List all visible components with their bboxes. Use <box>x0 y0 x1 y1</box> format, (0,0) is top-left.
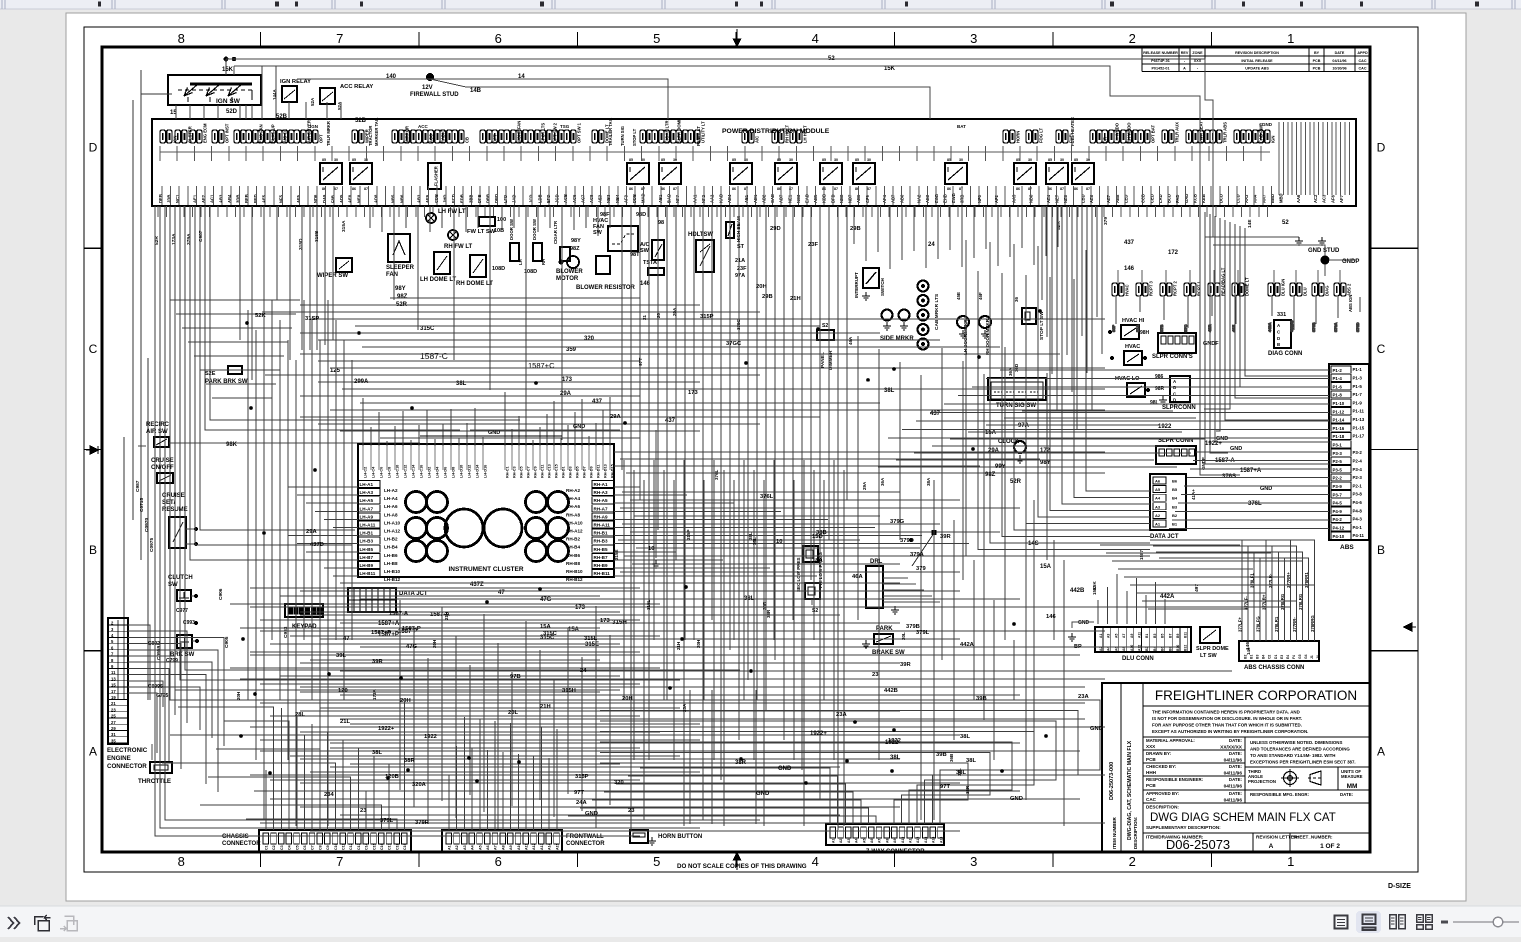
svg-text:P3-5: P3-5 <box>1333 467 1343 472</box>
svg-text:C: C <box>89 342 98 356</box>
svg-text:CONNECTOR: CONNECTOR <box>107 763 147 770</box>
svg-text:RELEASE NUMBER: RELEASE NUMBER <box>1143 51 1178 55</box>
svg-text:MATERIAL APPROVAL:: MATERIAL APPROVAL: <box>1146 738 1195 743</box>
svg-text:29A: 29A <box>306 529 317 535</box>
svg-text:RH-A9: RH-A9 <box>594 514 608 519</box>
svg-text:RH-D5: RH-D5 <box>576 466 580 478</box>
svg-text:18A: 18A <box>812 558 823 564</box>
svg-text:23: 23 <box>628 808 635 814</box>
svg-text:P4-6: P4-6 <box>1353 500 1363 505</box>
svg-text:DATE:: DATE: <box>1229 751 1243 756</box>
wire right mid horizontals to table <box>1100 545 1315 609</box>
svg-text:98T: 98T <box>630 252 640 258</box>
svg-text:LH-B10: LH-B10 <box>384 569 401 574</box>
svg-text:LBD: LBD <box>1080 194 1085 203</box>
svg-text:LH-A9: LH-A9 <box>360 514 374 519</box>
svg-text:STOP LT SW: STOP LT SW <box>1039 311 1045 340</box>
svg-text:J4: J4 <box>1316 655 1320 659</box>
svg-text:ABS 2: ABS 2 <box>1347 283 1352 296</box>
svg-text:A11: A11 <box>1138 632 1142 638</box>
svg-text:C: C <box>1377 342 1386 356</box>
svg-text:INITIAL RELEASE: INITIAL RELEASE <box>1241 59 1273 63</box>
svg-text:AE4: AE4 <box>1046 194 1051 203</box>
svg-text:LAD: LAD <box>1158 194 1163 203</box>
svg-text:20L: 20L <box>901 632 906 640</box>
svg-text:ELECTRONIC: ELECTRONIC <box>107 747 148 754</box>
svg-text:LH: LH <box>518 259 523 265</box>
zone letters left <box>89 141 98 759</box>
svg-text:ABS CHASSIS CONN: ABS CHASSIS CONN <box>1244 665 1304 671</box>
svg-text:SWITCH: SWITCH <box>880 278 885 296</box>
svg-text:BLOWER RESISTOR: BLOWER RESISTOR <box>576 285 636 291</box>
svg-text:P1-2: P1-2 <box>1333 368 1343 373</box>
wire left bundle staircase <box>155 206 760 836</box>
svg-text:377LR-: 377LR- <box>1268 573 1273 588</box>
svg-text:TRLR ABS: TRLR ABS <box>1223 122 1228 143</box>
svg-text:C905: C905 <box>224 636 230 648</box>
svg-text:30: 30 <box>1028 158 1032 162</box>
svg-text:320: 320 <box>614 780 624 786</box>
svg-text:LH-A5: LH-A5 <box>360 498 374 503</box>
svg-text:NE6: NE6 <box>1063 194 1068 203</box>
svg-text:86: 86 <box>1074 187 1078 191</box>
12V firewall stud <box>426 73 434 81</box>
svg-text:CAC: CAC <box>1146 797 1157 802</box>
svg-text:A7: A7 <box>494 845 498 850</box>
svg-text:XXX: XXX <box>1146 744 1156 749</box>
svg-text:REVISION DESCRIPTION: REVISION DESCRIPTION <box>1235 51 1279 55</box>
cab marker lights <box>918 281 941 350</box>
svg-text:36: 36 <box>1014 296 1019 302</box>
svg-text:87: 87 <box>959 187 963 191</box>
side marker lamps <box>882 310 893 321</box>
hvac hi switch <box>1121 325 1139 339</box>
wire number labels scattered <box>255 226 1103 826</box>
svg-text:ST: ST <box>737 244 745 250</box>
svg-text:AA6: AA6 <box>1296 194 1301 203</box>
svg-text:J1: J1 <box>1310 655 1314 659</box>
wiper switch <box>336 258 352 272</box>
svg-text:A11: A11 <box>909 837 913 843</box>
svg-text:AE9: AE9 <box>425 194 430 203</box>
svg-text:B5: B5 <box>1172 487 1178 492</box>
svg-text:LH-B5: LH-B5 <box>360 547 374 552</box>
svg-text:C13: C13 <box>357 843 361 850</box>
svg-text:A2: A2 <box>455 845 459 850</box>
lh dome lt <box>434 252 450 274</box>
svg-text:20L: 20L <box>508 710 518 716</box>
svg-text:87: 87 <box>1060 187 1064 191</box>
svg-text:LCD: LCD <box>1236 194 1241 203</box>
svg-text:29B: 29B <box>850 226 861 232</box>
svg-text:RESPONSIBLE ENGINEER:: RESPONSIBLE ENGINEER: <box>1146 777 1204 782</box>
svg-text:GND: GND <box>1230 446 1242 452</box>
svg-text:29D: 29D <box>770 226 781 232</box>
svg-text:TO ANSI STANDARD Y14.5M- 1982.: TO ANSI STANDARD Y14.5M- 1982. WITH <box>1250 753 1335 758</box>
svg-text:IS NOT FOR DISSEMINATION OR DI: IS NOT FOR DISSEMINATION OR DISCLOSURE. … <box>1152 716 1302 721</box>
svg-text:378LR1: 378LR1 <box>1274 616 1279 632</box>
pdm pin stubs <box>160 146 1271 205</box>
svg-text:38L: 38L <box>890 755 901 761</box>
svg-text:38R: 38R <box>766 609 771 618</box>
svg-text:39B: 39B <box>936 752 947 758</box>
svg-text:SLPR CONN'S: SLPR CONN'S <box>1152 354 1193 360</box>
svg-text:A6: A6 <box>1155 479 1161 484</box>
svg-text:3BB: 3BB <box>468 195 473 203</box>
svg-text:86: 86 <box>732 187 736 191</box>
wire frontwall connector drops <box>449 717 557 830</box>
svg-text:LH-C16: LH-C16 <box>420 465 424 478</box>
svg-text:BLOWER: BLOWER <box>556 269 583 275</box>
svg-text:1587+P: 1587+P <box>371 630 391 636</box>
svg-text:KEB: KEB <box>1201 194 1206 203</box>
turn signal switch <box>988 378 1046 400</box>
svg-text:A5: A5 <box>1155 487 1161 492</box>
wire 7-way top drops <box>690 690 756 824</box>
svg-text:SEC LOW PRES: SEC LOW PRES <box>796 557 801 592</box>
title block drawing number row <box>1143 832 1370 834</box>
cigar lighter <box>560 247 570 261</box>
svg-text:04/11/96: 04/11/96 <box>1224 758 1243 764</box>
svg-text:146: 146 <box>1246 647 1251 655</box>
svg-text:377LF+: 377LF+ <box>1238 617 1243 632</box>
svg-text:85: 85 <box>822 158 826 162</box>
svg-text:1922+: 1922+ <box>378 726 395 732</box>
svg-text:P4-5: P4-5 <box>1333 501 1343 506</box>
svg-text:RH-C13: RH-C13 <box>548 464 552 478</box>
svg-text:38L: 38L <box>966 758 976 764</box>
svg-text:359: 359 <box>566 347 577 353</box>
svg-text:315L: 315L <box>584 636 598 642</box>
svg-text:GND: GND <box>1090 726 1103 732</box>
svg-text:P1-6: P1-6 <box>1333 384 1343 389</box>
svg-text:15: 15 <box>111 683 116 688</box>
title block proprietary note <box>1143 736 1370 738</box>
svg-text:NE7: NE7 <box>1055 194 1060 203</box>
svg-text:CDB: CDB <box>434 194 439 203</box>
svg-text:UTILITY LT: UTILITY LT <box>701 121 706 143</box>
svg-text:P3-4: P3-4 <box>1353 467 1363 472</box>
svg-text:P1-3: P1-3 <box>1353 376 1363 381</box>
svg-text:14B: 14B <box>470 88 482 94</box>
svg-text:A14: A14 <box>548 843 552 850</box>
svg-text:87: 87 <box>641 187 645 191</box>
svg-text:AE7: AE7 <box>1106 194 1111 203</box>
wire right nest to abs table upper <box>888 370 1329 438</box>
svg-text:RH DOOR MRKR: RH DOOR MRKR <box>985 318 990 355</box>
svg-text:A12: A12 <box>916 837 920 843</box>
svg-text:315H: 315H <box>562 688 576 694</box>
electronic engine connector <box>108 618 128 744</box>
zone column ticks top <box>261 32 1212 46</box>
svg-text:GND: GND <box>1078 620 1090 626</box>
wire cluster feeds left <box>288 487 358 576</box>
svg-text:23A: 23A <box>836 712 847 718</box>
svg-text:A: A <box>1269 843 1274 850</box>
svg-text:A5: A5 <box>478 845 482 850</box>
wire mid horizontal group lower <box>240 583 1290 831</box>
svg-text:INSTRUMENT CLUSTER: INSTRUMENT CLUSTER <box>448 566 523 573</box>
svg-text:52: 52 <box>1282 220 1289 226</box>
svg-text:38L: 38L <box>956 770 966 776</box>
svg-text:437: 437 <box>592 399 603 405</box>
svg-text:97B: 97B <box>510 674 521 680</box>
svg-text:120B: 120B <box>385 774 399 780</box>
svg-text:52B: 52B <box>355 118 367 124</box>
svg-text:CED: CED <box>1149 194 1154 203</box>
svg-text:LH-B3: LH-B3 <box>360 539 374 544</box>
svg-text:38B: 38B <box>816 530 827 536</box>
svg-text:52K: 52K <box>255 313 266 319</box>
svg-text:TRLR MRKR: TRLR MRKR <box>326 121 331 146</box>
svg-text:172: 172 <box>1168 250 1179 256</box>
svg-text:20A: 20A <box>672 307 677 316</box>
svg-text:ACC RELAY: ACC RELAY <box>340 84 373 90</box>
svg-text:39B: 39B <box>976 696 987 702</box>
outer border frame <box>84 27 1418 872</box>
svg-text:173: 173 <box>600 618 610 624</box>
svg-text:C16: C16 <box>380 843 384 850</box>
svg-text:378LF1: 378LF1 <box>1250 573 1255 588</box>
svg-text:LH-C4: LH-C4 <box>372 466 376 478</box>
svg-text:23F: 23F <box>808 242 818 248</box>
svg-text:37GC: 37GC <box>726 341 742 347</box>
svg-text:ECD: ECD <box>451 194 456 203</box>
left edge arrow <box>86 446 98 454</box>
svg-text:57A: 57A <box>1135 325 1140 332</box>
svg-text:CHASSIS: CHASSIS <box>222 834 249 840</box>
svg-text:21: 21 <box>111 701 116 706</box>
svg-text:C987: C987 <box>198 230 204 242</box>
svg-text:G3: G3 <box>1298 654 1302 659</box>
svg-text:HVAC: HVAC <box>1125 284 1130 296</box>
pdm bottom pin labels <box>158 193 1344 203</box>
svg-text:46A: 46A <box>848 336 853 345</box>
zone numbers bottom <box>178 854 1295 869</box>
svg-text:C15: C15 <box>372 843 376 850</box>
lh door sw <box>510 243 519 261</box>
svg-text:15K: 15K <box>222 67 234 73</box>
svg-text:20H: 20H <box>400 698 411 704</box>
right edge arrow <box>1404 623 1416 631</box>
svg-text:47G: 47G <box>540 597 552 603</box>
svg-text:C5: C5 <box>295 845 299 850</box>
svg-text:DBB: DBB <box>486 194 491 203</box>
svg-text:29: 29 <box>111 726 116 731</box>
instrument cluster gauges <box>406 492 569 562</box>
svg-text:DESCRIPTION:: DESCRIPTION: <box>1133 816 1138 849</box>
svg-text:21L: 21L <box>340 719 350 725</box>
keypad <box>285 604 323 617</box>
zone row ticks left <box>84 248 102 651</box>
svg-text:146: 146 <box>1124 266 1135 272</box>
svg-text:LH-A4: LH-A4 <box>384 496 398 501</box>
svg-text:AC2: AC2 <box>1313 194 1318 203</box>
svg-text:D06-25073-000: D06-25073-000 <box>1109 762 1115 800</box>
svg-text:LH-B11: LH-B11 <box>360 571 376 576</box>
svg-text:15K: 15K <box>1092 586 1097 595</box>
svg-text:P2-1: P2-1 <box>1353 483 1363 488</box>
svg-text:TRAILER TAIL: TRAILER TAIL <box>608 117 613 146</box>
svg-text:DOOR SW: DOOR SW <box>532 218 537 240</box>
svg-text:C6: C6 <box>303 845 307 850</box>
svg-text:1587-P: 1587-P <box>402 626 421 632</box>
svg-text:39R: 39R <box>372 659 383 665</box>
svg-text:85: 85 <box>1048 158 1052 162</box>
svg-text:LH-D12: LH-D12 <box>468 465 472 478</box>
svg-text:57B: 57B <box>1159 325 1164 332</box>
svg-text:RH-C7: RH-C7 <box>527 466 531 478</box>
svg-text:315E: 315E <box>614 549 619 560</box>
svg-text:ENGINE: ENGINE <box>107 755 131 762</box>
svg-text:GND: GND <box>573 424 585 430</box>
svg-text:C18: C18 <box>395 843 399 850</box>
svg-text:OPT: OPT <box>319 134 324 143</box>
svg-text:LH-C14: LH-C14 <box>412 464 416 478</box>
svg-text:BBD: BBD <box>1270 194 1275 203</box>
svg-text:SLPRCONN: SLPRCONN <box>1162 405 1196 411</box>
svg-text:PANEL LT: PANEL LT <box>696 126 701 146</box>
svg-text:B: B <box>1277 342 1280 347</box>
wire right of pdm vertical bundle <box>1042 206 1102 429</box>
svg-text:A12: A12 <box>1138 645 1142 651</box>
svg-text:24: 24 <box>580 668 587 674</box>
svg-text:A4: A4 <box>855 839 859 843</box>
svg-text:BAT: BAT <box>957 124 966 129</box>
svg-text:173: 173 <box>688 390 698 396</box>
svg-text:B12: B12 <box>1184 645 1188 651</box>
svg-text:B5: B5 <box>1161 634 1165 638</box>
svg-text:ACB: ACB <box>563 194 568 203</box>
svg-text:ACC: ACC <box>418 124 428 129</box>
svg-text:379: 379 <box>916 566 926 572</box>
svg-text:B3: B3 <box>1153 634 1157 638</box>
svg-text:39R: 39R <box>940 534 951 540</box>
svg-text:C11: C11 <box>342 844 346 850</box>
svg-text:B4: B4 <box>1262 655 1266 659</box>
svg-text:DLU CONN: DLU CONN <box>1122 656 1154 662</box>
svg-text:B11: B11 <box>1184 632 1188 638</box>
svg-text:320: 320 <box>584 336 595 342</box>
svg-text:378LFG: 378LFG <box>1256 616 1261 632</box>
svg-text:30: 30 <box>959 158 963 162</box>
svg-text:30: 30 <box>1060 158 1064 162</box>
svg-text:41R: 41R <box>1207 325 1212 332</box>
svg-text:P1-9: P1-9 <box>1353 400 1363 405</box>
svg-text:C8: C8 <box>318 845 322 850</box>
svg-text:APPD: APPD <box>1357 51 1368 55</box>
third angle projection symbol <box>1281 769 1323 787</box>
svg-text:377LF-: 377LF- <box>1244 596 1249 610</box>
svg-text:LH-A8: LH-A8 <box>384 512 398 517</box>
svg-text:LH HDLT: LH HDLT <box>803 125 808 143</box>
svg-text:P1-18: P1-18 <box>1333 434 1345 439</box>
lh fw lt lamp <box>426 213 436 223</box>
svg-text:C12: C12 <box>349 843 353 850</box>
svg-text:A6: A6 <box>486 845 490 850</box>
wire 7-way right staircase <box>600 700 1100 824</box>
svg-text:379C: 379C <box>736 318 741 330</box>
svg-text:RCPT 3: RCPT 3 <box>1149 280 1154 296</box>
svg-text:FAN: FAN <box>386 272 398 278</box>
svg-text:P2-5: P2-5 <box>1333 459 1343 464</box>
svg-text:A: A <box>1183 67 1186 71</box>
svg-text:04/11/96: 04/11/96 <box>1224 771 1243 777</box>
svg-text:85: 85 <box>947 158 951 162</box>
wire bottom-left extra horizontals <box>230 588 660 700</box>
svg-text:97T: 97T <box>638 358 644 366</box>
junction 15K <box>232 57 236 61</box>
svg-text:FLASHER: FLASHER <box>434 166 439 186</box>
svg-text:RH-C15: RH-C15 <box>555 464 559 478</box>
svg-text:P4-3: P4-3 <box>1353 517 1363 522</box>
svg-text:RH: RH <box>541 259 546 265</box>
svg-text:15A: 15A <box>985 430 997 436</box>
svg-text:LH DOME LT: LH DOME LT <box>420 277 457 283</box>
svg-text:P1-10: P1-10 <box>1333 401 1345 406</box>
svg-text:DESCRIPTION:: DESCRIPTION: <box>1146 805 1179 810</box>
svg-text:376A: 376A <box>1333 322 1338 332</box>
svg-text:P4-11: P4-11 <box>1353 533 1365 538</box>
svg-text:97T: 97T <box>940 784 950 790</box>
park brake switch lower <box>874 634 893 644</box>
svg-text:30: 30 <box>334 158 338 162</box>
7-way connector <box>826 824 944 845</box>
svg-text:98Z: 98Z <box>570 246 580 252</box>
svg-text:442A: 442A <box>1160 594 1175 600</box>
horn button <box>630 830 648 843</box>
svg-text:LH-A3: LH-A3 <box>360 490 374 495</box>
wire engine connector runs <box>128 625 224 792</box>
svg-text:5: 5 <box>653 31 660 46</box>
svg-text:LH-B8: LH-B8 <box>384 561 398 566</box>
svg-text:P01452-01: P01452-01 <box>1151 67 1169 71</box>
svg-text:27: 27 <box>111 720 116 725</box>
svg-text:IGN: IGN <box>310 124 318 129</box>
svg-text:B1: B1 <box>1172 522 1178 527</box>
svg-text:30: 30 <box>1086 158 1090 162</box>
rh door sw <box>533 243 542 261</box>
svg-text:SHEET_NUMBER:: SHEET_NUMBER: <box>1293 835 1333 840</box>
svg-text:CONNECTOR: CONNECTOR <box>566 841 605 847</box>
svg-text:GND STUD: GND STUD <box>1308 248 1340 254</box>
svg-text:GND: GND <box>1262 122 1273 127</box>
svg-text:E3: E3 <box>1280 655 1284 659</box>
svg-text:21A: 21A <box>735 258 745 264</box>
wire upper-left nested loops <box>170 300 300 398</box>
status copy icon <box>35 915 51 931</box>
svg-text:8: 8 <box>178 854 185 869</box>
svg-text:442B: 442B <box>1070 588 1085 594</box>
svg-text:A10: A10 <box>901 837 905 843</box>
svg-text:442B: 442B <box>884 688 898 694</box>
svg-text:28L: 28L <box>295 712 305 718</box>
svg-text:21: 21 <box>642 314 647 320</box>
svg-text:LT SW: LT SW <box>1200 653 1218 659</box>
svg-text:98Y: 98Y <box>571 238 581 244</box>
svg-text:RH-C3: RH-C3 <box>513 466 517 478</box>
svg-text:7: 7 <box>336 31 343 46</box>
svg-text:RH-B5: RH-B5 <box>594 547 608 552</box>
svg-text:P4-10: P4-10 <box>1333 534 1345 539</box>
svg-text:DATE:: DATE: <box>1229 791 1243 796</box>
svg-text:B: B <box>89 543 97 557</box>
svg-text:RH HDLT: RH HDLT <box>785 124 790 143</box>
svg-text:36D: 36D <box>1014 363 1019 372</box>
svg-text:D: D <box>1377 141 1386 155</box>
svg-text:39R: 39R <box>900 662 911 668</box>
svg-text:DIAG CONN: DIAG CONN <box>1268 351 1302 357</box>
